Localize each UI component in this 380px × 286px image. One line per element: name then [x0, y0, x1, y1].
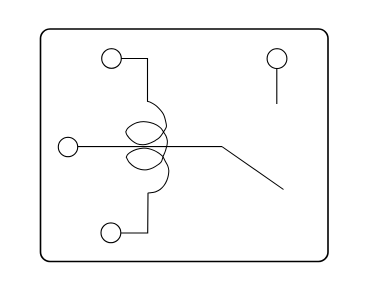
wire pin1 to coil top	[121, 59, 147, 102]
pin 4 (top-right terminal)	[267, 49, 287, 69]
relay body outline	[41, 29, 329, 262]
pin 3 (left common terminal)	[58, 137, 77, 156]
wire coil bottom to pin 2	[121, 193, 148, 233]
pin 2 (bottom terminal)	[101, 223, 121, 243]
coil K1 winding (two-turn cursive stroke)	[126, 101, 169, 192]
armature wire from pin 3	[78, 146, 222, 148]
moving contact (diagonal)	[222, 147, 284, 190]
wire stub from pin 4	[276, 69, 278, 105]
pin 1 (top-left terminal)	[102, 49, 122, 69]
